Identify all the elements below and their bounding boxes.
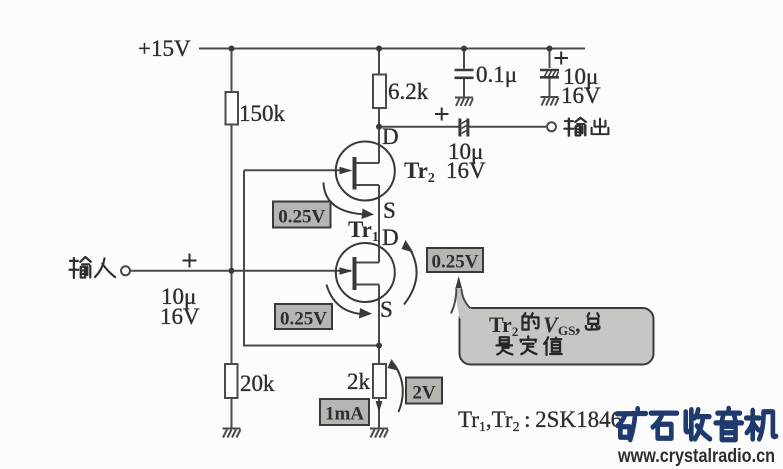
svg-text:16V: 16V: [561, 83, 601, 108]
svg-text:0.1μ: 0.1μ: [476, 62, 517, 87]
svg-text:GS: GS: [558, 323, 575, 338]
svg-text:D: D: [382, 225, 399, 250]
svg-text:,: ,: [575, 312, 581, 337]
svg-text:www.crystalradio.cn: www.crystalradio.cn: [617, 445, 775, 467]
svg-text:S: S: [380, 297, 393, 322]
svg-text:150k: 150k: [239, 101, 286, 126]
svg-text:Tr1: Tr1: [348, 217, 379, 245]
svg-text:2k: 2k: [347, 369, 371, 394]
svg-text:16V: 16V: [446, 158, 486, 183]
svg-text:S: S: [383, 198, 396, 223]
svg-text:D: D: [382, 124, 399, 149]
svg-text:6.2k: 6.2k: [388, 79, 429, 104]
svg-text:20k: 20k: [240, 371, 275, 396]
svg-text:0.25V: 0.25V: [432, 252, 479, 273]
svg-text:+15V: +15V: [138, 36, 191, 61]
svg-text:16V: 16V: [160, 304, 200, 329]
svg-text:1mA: 1mA: [325, 404, 364, 425]
svg-text:Tr1,Tr2 : 2SK1846: Tr1,Tr2 : 2SK1846: [458, 407, 622, 435]
svg-text:0.25V: 0.25V: [280, 309, 327, 330]
svg-text:Tr2: Tr2: [404, 158, 435, 186]
svg-text:0.25V: 0.25V: [278, 207, 325, 228]
svg-text:2V: 2V: [412, 383, 436, 404]
